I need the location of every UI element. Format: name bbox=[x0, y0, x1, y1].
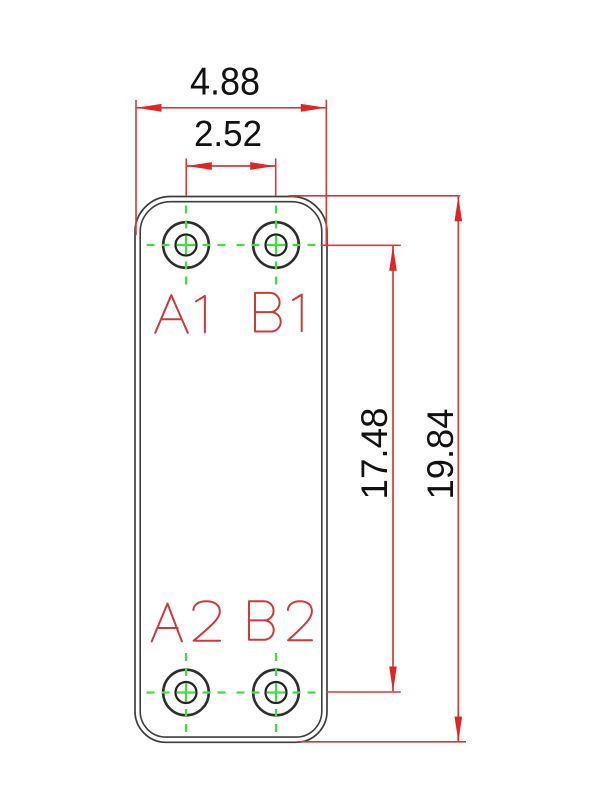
port B1 outer ring bbox=[253, 222, 299, 268]
svg-text:17.48: 17.48 bbox=[353, 408, 395, 500]
port A2 inner circle bbox=[176, 682, 197, 703]
dimension 4.88 line bbox=[136, 107, 326, 109]
svg-text:4.88: 4.88 bbox=[190, 60, 260, 103]
dimension 17.48 extension line top (port level) bbox=[321, 244, 401, 246]
centerline crosshair B2 bbox=[237, 653, 316, 732]
dimension 2.52 arrow right bbox=[250, 162, 275, 170]
dimension 19.84 extension line bottom (plate bottom) bbox=[297, 741, 466, 743]
centerline crosshair A1 bbox=[147, 206, 226, 285]
port A1 outer ring bbox=[163, 222, 209, 268]
port B2 outer ring bbox=[253, 670, 299, 716]
port A2 outer ring bbox=[163, 670, 209, 716]
port label A1 bbox=[155, 295, 205, 333]
svg-text:2.52: 2.52 bbox=[194, 113, 262, 154]
port label B2 bbox=[249, 601, 312, 640]
dimension 4.88 extension line left bbox=[135, 100, 137, 235]
dimension 19.84 extension line top (plate top) bbox=[289, 195, 461, 197]
dimension 17.48 line bbox=[392, 246, 394, 691]
dimension 2.52 extension line right bbox=[275, 158, 277, 195]
dimension 19.84 arrow up bbox=[455, 196, 463, 221]
dimension 2.52 arrow left bbox=[187, 162, 212, 170]
plate inner outline bbox=[140, 202, 322, 737]
port B1 inner circle bbox=[266, 235, 287, 256]
dimension 19.84 arrow down bbox=[455, 717, 463, 742]
dimension 2.52 extension line left bbox=[185, 158, 187, 195]
dimension 17.48 extension line bottom (port level) bbox=[326, 691, 400, 693]
port B2 inner circle bbox=[266, 682, 287, 703]
dimension 19.84 line bbox=[457, 197, 459, 742]
port A1 inner circle bbox=[176, 235, 197, 256]
port label B1 bbox=[255, 293, 302, 332]
centerline crosshair B1 bbox=[237, 206, 316, 285]
port label A2 bbox=[152, 601, 220, 641]
dimension 4.88 extension line right bbox=[325, 100, 327, 247]
plate outer outline bbox=[135, 197, 327, 743]
dimension 2.52 line bbox=[186, 165, 275, 167]
dimension 17.48 arrow up bbox=[389, 246, 397, 271]
dimension 4.88 arrow left bbox=[137, 104, 162, 112]
dimension 4.88 arrow right bbox=[301, 104, 326, 112]
centerline crosshair A2 bbox=[147, 653, 226, 732]
dimension 17.48 arrow down bbox=[389, 667, 397, 692]
svg-text:19.84: 19.84 bbox=[420, 409, 461, 500]
